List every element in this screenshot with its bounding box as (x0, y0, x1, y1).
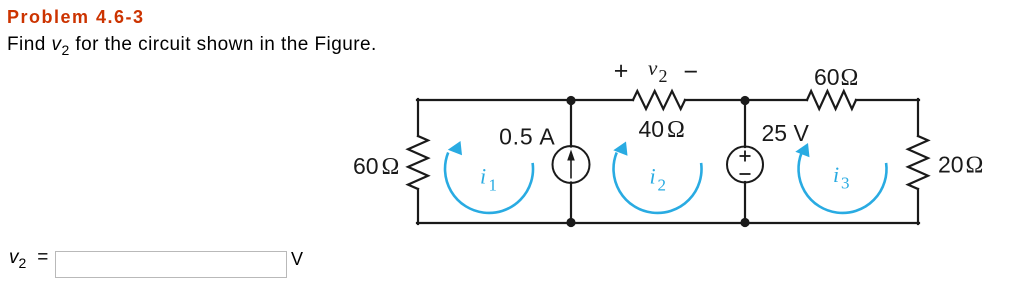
resistor 40ohm zigzag (633, 91, 685, 109)
wire top-middle segment (685, 99, 807, 101)
node dot top-right (740, 96, 749, 105)
node dot bottom-left (566, 218, 575, 227)
voltage source minus sign (740, 173, 751, 175)
wire top-left segment (417, 99, 633, 101)
wire bottom (417, 222, 919, 224)
answer input box (55, 251, 287, 278)
title (7, 8, 145, 26)
svg-text:i: i (480, 164, 486, 189)
wire left lower (417, 189, 419, 224)
wire top-right segment (856, 99, 919, 101)
wire current-source upper (570, 100, 572, 147)
wire right upper (917, 99, 919, 136)
mesh current i2 arrowhead (613, 142, 627, 156)
wire voltage-source upper (744, 100, 746, 147)
wire voltage-source lower (744, 182, 746, 223)
svg-text:i: i (650, 164, 656, 189)
mesh current i1 arc (445, 153, 533, 213)
current source arrow (567, 150, 575, 179)
resistor 60ohm top zigzag (807, 91, 856, 109)
node dot bottom-right (740, 218, 749, 227)
svg-text:3: 3 (841, 174, 850, 193)
svg-text:40: 40 (639, 116, 665, 142)
svg-text:2: 2 (658, 176, 667, 195)
mesh current i1 arrowhead (448, 141, 462, 155)
svg-text:v: v (648, 56, 658, 80)
svg-text:Ω: Ω (841, 65, 859, 91)
svg-text:0.5 A: 0.5 A (499, 124, 555, 150)
svg-text:20: 20 (938, 152, 964, 178)
svg-text:60: 60 (814, 64, 840, 90)
svg-text:60: 60 (353, 153, 379, 179)
unit V (291, 250, 303, 268)
svg-text:i: i (833, 162, 839, 187)
wire current-source lower (570, 183, 572, 224)
svg-text:2: 2 (659, 66, 668, 86)
wire left upper (417, 99, 419, 136)
resistor 20ohm right zigzag (908, 136, 928, 189)
voltage source V1 circle (727, 147, 763, 183)
mesh current i3 arrowhead (795, 143, 809, 157)
answer row (9, 248, 48, 270)
prompt text (7, 35, 377, 57)
mesh current i3 arc (799, 153, 887, 213)
svg-text:−: − (683, 58, 698, 86)
voltage source plus sign (740, 151, 751, 175)
svg-text:+: + (614, 57, 629, 85)
current source I1 circle (553, 146, 590, 183)
svg-text:1: 1 (489, 176, 498, 195)
resistor 60ohm left zigzag (408, 136, 428, 189)
svg-text:Ω: Ω (667, 117, 685, 143)
svg-text:Ω: Ω (966, 153, 984, 179)
wire right lower (917, 189, 919, 224)
node dot top-left (566, 96, 575, 105)
svg-text:25 V: 25 V (762, 120, 810, 146)
svg-text:Ω: Ω (382, 154, 400, 180)
mesh current i2 arc (614, 153, 702, 213)
